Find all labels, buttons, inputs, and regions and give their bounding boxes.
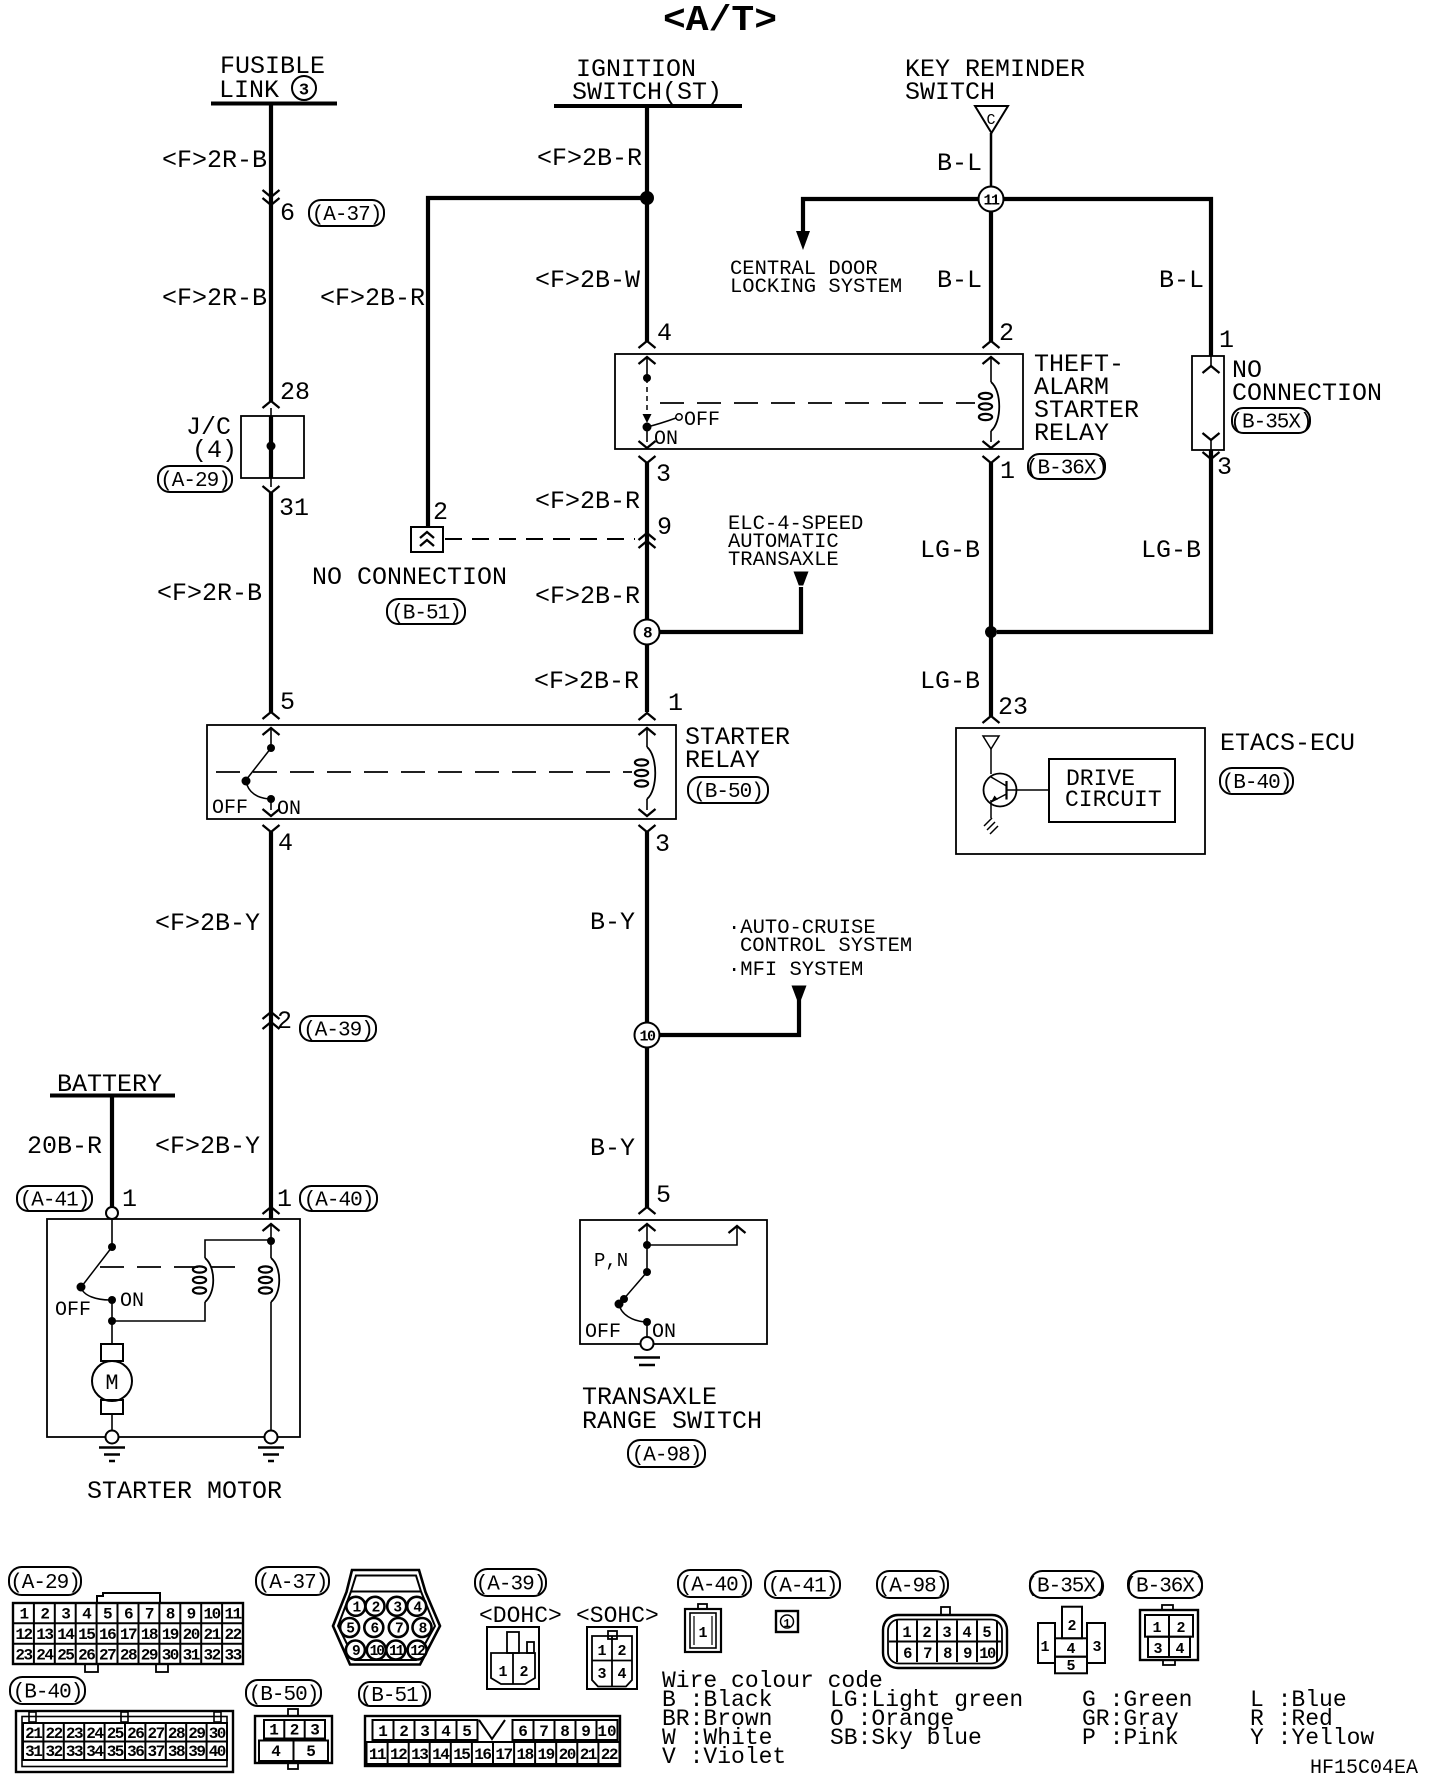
- svg-text:CONNECTION: CONNECTION: [1232, 379, 1382, 408]
- fusible link terminal bar: [211, 102, 337, 106]
- connector label B-51: [359, 1682, 430, 1706]
- svg-text:15: 15: [78, 1626, 95, 1644]
- svg-text:29: 29: [141, 1646, 158, 1664]
- connector A-39 SOHC pinout: [587, 1627, 637, 1689]
- theft-alarm starter relay box B-36X: [615, 354, 1023, 449]
- svg-text:20B-R: 20B-R: [27, 1132, 102, 1161]
- svg-text:<F>2B-Y: <F>2B-Y: [155, 909, 260, 938]
- svg-text:8: 8: [943, 1645, 952, 1663]
- svg-text:NO CONNECTION: NO CONNECTION: [312, 563, 507, 592]
- svg-text:39: 39: [188, 1743, 205, 1761]
- wire (F)2R-B to starter relay: [269, 493, 273, 712]
- dashed link to pin 9: [445, 538, 635, 540]
- svg-text:·MFI SYSTEM: ·MFI SYSTEM: [728, 959, 863, 982]
- connector label B-35X: [1030, 1571, 1102, 1598]
- ground starter motor coil: [265, 1431, 278, 1444]
- svg-text:<A/T>: <A/T>: [663, 0, 777, 41]
- svg-text:<F>2B-R: <F>2B-R: [535, 582, 640, 611]
- svg-text:33: 33: [224, 1646, 241, 1664]
- svg-text:30: 30: [162, 1646, 179, 1664]
- transaxle inner branch: [647, 1226, 737, 1245]
- svg-text:18: 18: [516, 1746, 533, 1764]
- svg-text:4: 4: [271, 1743, 281, 1761]
- transaxle range switch box: [580, 1220, 767, 1344]
- svg-text:(B-36X): (B-36X): [1026, 458, 1107, 481]
- svg-text:<F>2R-B: <F>2R-B: [162, 284, 267, 313]
- svg-text:7: 7: [145, 1606, 154, 1624]
- wire node 10 branch to MFI: [659, 999, 799, 1035]
- svg-text:(A-39): (A-39): [476, 1574, 546, 1597]
- node 10: [635, 1023, 660, 1048]
- svg-text:(B-40): (B-40): [13, 1682, 83, 1705]
- theft relay switch contact: [646, 357, 648, 377]
- svg-text:(A-41): (A-41): [768, 1576, 838, 1599]
- svg-text:RANGE SWITCH: RANGE SWITCH: [582, 1407, 762, 1436]
- svg-text:6: 6: [903, 1645, 912, 1663]
- connector B-51 pinout: [365, 1716, 620, 1766]
- no connection box B-35X: [1192, 356, 1224, 450]
- wire theft pin1 down LG-B: [989, 463, 993, 626]
- svg-text:LG-B: LG-B: [920, 667, 980, 696]
- svg-text:2: 2: [1176, 1620, 1185, 1637]
- svg-text:2: 2: [1067, 1618, 1076, 1635]
- svg-text:3: 3: [656, 460, 671, 489]
- svg-text:1: 1: [1219, 326, 1234, 355]
- svg-text:4: 4: [617, 1666, 626, 1683]
- svg-text:27: 27: [99, 1646, 116, 1664]
- ETACS-ECU box B-40: [956, 728, 1205, 854]
- svg-text:19: 19: [537, 1746, 554, 1764]
- battery terminal circle A-41 pin 1: [106, 1207, 118, 1219]
- connector B-36X pinout: [1162, 1605, 1173, 1610]
- svg-text:<DOHC>: <DOHC>: [479, 1603, 562, 1629]
- svg-text:(A-37): (A-37): [312, 204, 382, 227]
- svg-text:8: 8: [166, 1606, 175, 1624]
- svg-text:12: 12: [390, 1746, 407, 1764]
- svg-text:9: 9: [657, 513, 672, 542]
- svg-text:<F>2R-B: <F>2R-B: [162, 146, 267, 175]
- svg-text:OFF: OFF: [55, 1299, 91, 1322]
- svg-text:15: 15: [453, 1746, 470, 1764]
- connector A-37 pinout: [333, 1570, 440, 1665]
- svg-text:1: 1: [1152, 1620, 1161, 1637]
- svg-text:LOCKING SYSTEM: LOCKING SYSTEM: [730, 276, 902, 299]
- svg-text:OFF: OFF: [212, 797, 248, 820]
- svg-text:23: 23: [998, 693, 1028, 722]
- svg-text:2: 2: [40, 1606, 49, 1624]
- svg-text:<F>2B-W: <F>2B-W: [535, 266, 640, 295]
- svg-text:1: 1: [1040, 1639, 1049, 1656]
- connector A-39 pin 2 chevrons: [263, 1012, 280, 1019]
- svg-text:(A-40): (A-40): [680, 1575, 750, 1598]
- svg-text:33: 33: [66, 1743, 83, 1761]
- svg-text:6: 6: [124, 1606, 133, 1624]
- connector A-39 DOHC pinout: [487, 1627, 539, 1689]
- svg-text:<F>2B-Y: <F>2B-Y: [155, 1132, 260, 1161]
- svg-text:(B-51): (B-51): [360, 1685, 430, 1708]
- key reminder switch symbol C: [975, 106, 1008, 133]
- svg-text:SWITCH(ST): SWITCH(ST): [572, 78, 722, 107]
- svg-text:SWITCH: SWITCH: [905, 78, 995, 107]
- svg-text:24: 24: [36, 1646, 54, 1664]
- svg-text:1: 1: [698, 1625, 707, 1642]
- connector label B-40: [10, 1677, 85, 1704]
- wire (F)2B-R theft relay to node 8: [645, 463, 649, 619]
- svg-text:C: C: [986, 112, 995, 129]
- connector A-29 pinout: [13, 1603, 243, 1664]
- svg-text:22: 22: [601, 1746, 618, 1764]
- svg-text:3: 3: [310, 1722, 320, 1740]
- svg-text:9: 9: [963, 1645, 972, 1663]
- svg-text:1: 1: [122, 1185, 137, 1214]
- svg-text:31: 31: [279, 494, 309, 523]
- svg-text:B-Y: B-Y: [590, 1134, 635, 1163]
- drive circuit box: [1049, 759, 1175, 822]
- svg-text:HF15C04EA: HF15C04EA: [1310, 1757, 1418, 1780]
- svg-text:1: 1: [1000, 457, 1015, 486]
- connector A-40 pin 1 chevrons: [263, 1207, 280, 1214]
- svg-text:4: 4: [962, 1624, 971, 1642]
- svg-text:1: 1: [378, 1723, 388, 1741]
- svg-text:<F>2B-R: <F>2B-R: [320, 284, 425, 313]
- svg-text:22: 22: [224, 1626, 241, 1644]
- ground starter motor M: [106, 1431, 119, 1444]
- svg-text:(A-40): (A-40): [304, 1190, 374, 1213]
- svg-text:3: 3: [61, 1606, 70, 1624]
- svg-text:(4): (4): [192, 436, 237, 465]
- wire node 11 down B-L: [989, 211, 993, 341]
- svg-text:14: 14: [57, 1626, 75, 1644]
- svg-text:11: 11: [224, 1606, 241, 1624]
- svg-text:10: 10: [370, 1644, 385, 1660]
- svg-text:3: 3: [1217, 453, 1232, 482]
- connector label B-50: [246, 1680, 321, 1706]
- svg-text:(B-50): (B-50): [249, 1684, 319, 1707]
- svg-text:ETACS-ECU: ETACS-ECU: [1220, 729, 1355, 758]
- starter motor pull-in coil: [205, 1258, 213, 1302]
- svg-text:16: 16: [99, 1626, 116, 1644]
- svg-text:12: 12: [410, 1644, 425, 1660]
- ground transaxle switch: [641, 1337, 654, 1350]
- wire battery 20B-R: [110, 1097, 114, 1207]
- svg-text:STARTER MOTOR: STARTER MOTOR: [87, 1477, 282, 1506]
- svg-text:17: 17: [120, 1626, 137, 1644]
- svg-text:RELAY: RELAY: [685, 746, 760, 775]
- svg-text:7: 7: [539, 1723, 549, 1741]
- svg-text:5: 5: [982, 1624, 991, 1642]
- svg-text:1: 1: [277, 1185, 292, 1214]
- svg-text:26: 26: [127, 1725, 144, 1743]
- svg-text:5: 5: [306, 1743, 316, 1761]
- svg-text:8: 8: [643, 625, 652, 643]
- svg-text:20: 20: [559, 1746, 576, 1764]
- svg-text:11: 11: [389, 1644, 405, 1660]
- svg-text:ON: ON: [654, 428, 678, 451]
- svg-text:(B-36X): (B-36X): [1124, 1576, 1205, 1599]
- wire B-35X pin3 LG-B down to junction: [997, 450, 1211, 632]
- svg-text:30: 30: [209, 1725, 226, 1743]
- svg-text:18: 18: [141, 1626, 158, 1644]
- svg-text:4: 4: [441, 1723, 451, 1741]
- svg-text:(A-39): (A-39): [303, 1020, 373, 1043]
- svg-text:3: 3: [942, 1624, 951, 1642]
- svg-text:1: 1: [668, 689, 683, 718]
- wire ignition vertical (F)2B-R: [645, 106, 649, 341]
- svg-text:<F>2B-R: <F>2B-R: [535, 487, 640, 516]
- svg-text:CIRCUIT: CIRCUIT: [1065, 787, 1162, 813]
- ignition switch terminal bar: [554, 104, 742, 108]
- svg-text:5: 5: [656, 1181, 671, 1210]
- starter relay pin 3 terminals: [639, 809, 656, 816]
- starter motor hold coil: [271, 1258, 279, 1302]
- connector A-41 pinout: [776, 1611, 798, 1632]
- connector B-40 pinout: [16, 1711, 233, 1772]
- svg-text:21: 21: [580, 1746, 597, 1764]
- svg-text:38: 38: [168, 1743, 185, 1761]
- starter motor M: [111, 1321, 113, 1344]
- connector A-37 pin 6 chevrons: [263, 190, 280, 197]
- svg-text:11: 11: [369, 1746, 386, 1764]
- wire to central door locking system: [803, 199, 978, 233]
- svg-text:B-L: B-L: [937, 266, 982, 295]
- svg-text:32: 32: [45, 1743, 62, 1761]
- svg-text:10: 10: [203, 1606, 220, 1624]
- svg-text:LG-B: LG-B: [1141, 536, 1201, 565]
- svg-text:1: 1: [902, 1624, 911, 1642]
- svg-text:13: 13: [411, 1746, 428, 1764]
- wire node 8 branch to ELC transaxle: [659, 587, 801, 632]
- svg-text:6: 6: [518, 1723, 528, 1741]
- theft relay pin 1 terminals: [983, 441, 1000, 448]
- svg-text:2: 2: [433, 498, 448, 527]
- starter relay box B-50: [207, 725, 676, 819]
- ETACS input triangle: [983, 736, 999, 749]
- svg-text:9: 9: [187, 1606, 196, 1624]
- svg-text:(A-37): (A-37): [258, 1572, 328, 1595]
- wire (F)2B-Y relay to starter motor: [269, 832, 273, 1219]
- svg-text:3: 3: [1092, 1639, 1101, 1656]
- svg-text:1: 1: [783, 1617, 790, 1631]
- svg-text:35: 35: [107, 1743, 124, 1761]
- wire fusible link vertical (F)2R-B: [269, 105, 273, 401]
- starter relay pin 4 terminals: [263, 809, 280, 816]
- svg-text:2: 2: [519, 1664, 528, 1681]
- connector label B-36X: [1128, 1571, 1202, 1598]
- svg-text:10: 10: [639, 1029, 656, 1046]
- svg-text:1: 1: [498, 1664, 507, 1681]
- svg-text:27: 27: [147, 1725, 164, 1743]
- svg-text:37: 37: [147, 1743, 164, 1761]
- wire A-40 down through hold coil: [270, 1224, 272, 1258]
- svg-text:28: 28: [280, 378, 310, 407]
- svg-text:32: 32: [203, 1646, 220, 1664]
- svg-text:2: 2: [399, 1723, 409, 1741]
- svg-text:11: 11: [983, 193, 1000, 210]
- svg-text:(A-29): (A-29): [10, 1572, 80, 1595]
- svg-text:3: 3: [420, 1723, 430, 1741]
- svg-text:5: 5: [462, 1723, 472, 1741]
- svg-text:2: 2: [999, 319, 1014, 348]
- svg-text:2: 2: [617, 1643, 626, 1660]
- svg-text:22: 22: [45, 1725, 62, 1743]
- svg-text:2: 2: [922, 1624, 931, 1642]
- svg-text:(B-35X): (B-35X): [1230, 412, 1311, 435]
- svg-text:31: 31: [183, 1646, 200, 1664]
- wire node 11 to B-35X branch B-L: [1004, 199, 1211, 356]
- svg-text:6: 6: [280, 199, 295, 228]
- svg-text:B-L: B-L: [937, 149, 982, 178]
- svg-text:B-Y: B-Y: [590, 908, 635, 937]
- node LG-B junction: [985, 626, 997, 638]
- svg-text:ON: ON: [277, 798, 301, 821]
- svg-text:V :Violet: V :Violet: [662, 1744, 786, 1770]
- svg-text:36: 36: [127, 1743, 144, 1761]
- svg-text:M: M: [105, 1371, 118, 1396]
- svg-text:1: 1: [269, 1722, 279, 1740]
- ETACS transistor: [984, 774, 1017, 807]
- svg-text:(B-51): (B-51): [391, 603, 461, 626]
- svg-text:13: 13: [36, 1626, 53, 1644]
- svg-text:(A-98): (A-98): [878, 1576, 948, 1599]
- svg-text:2: 2: [290, 1722, 300, 1740]
- ground ETACS transistor: [984, 818, 998, 834]
- connector A-40 pinout: [698, 1604, 707, 1609]
- wire (F)2B-R node8 to starter relay pin 1: [645, 644, 649, 712]
- connector label A-37: [309, 200, 384, 226]
- svg-text:5: 5: [1066, 1658, 1075, 1675]
- svg-text:4: 4: [278, 829, 293, 858]
- junction block J/C (4) A-29: [263, 401, 280, 408]
- svg-text:4: 4: [1066, 1641, 1075, 1658]
- connector label A-29: [9, 1567, 81, 1595]
- svg-text:17: 17: [495, 1746, 512, 1764]
- svg-text:CONTROL SYSTEM: CONTROL SYSTEM: [740, 935, 912, 958]
- svg-text:OFF: OFF: [585, 1321, 621, 1344]
- svg-text:14: 14: [432, 1746, 450, 1764]
- connector label A-41: [765, 1571, 840, 1598]
- svg-text:20: 20: [183, 1626, 200, 1644]
- wire B-Y starter relay pin3 to node 10: [645, 832, 649, 1022]
- svg-text:34: 34: [86, 1743, 104, 1761]
- theft relay pin 3 terminals: [639, 441, 656, 448]
- svg-text:23: 23: [66, 1725, 83, 1743]
- svg-text:4: 4: [657, 319, 672, 348]
- svg-text:31: 31: [25, 1743, 42, 1761]
- node 8: [635, 620, 660, 645]
- connector label A-98: [877, 1571, 948, 1598]
- svg-text:40: 40: [209, 1743, 226, 1761]
- svg-text:(B-35X): (B-35X): [1025, 1576, 1106, 1599]
- svg-text:1: 1: [19, 1606, 28, 1624]
- battery terminal bar: [50, 1094, 175, 1098]
- svg-text:25: 25: [107, 1725, 124, 1743]
- svg-text:5: 5: [103, 1606, 112, 1624]
- svg-text:24: 24: [86, 1725, 104, 1743]
- svg-text:TRANSAXLE: TRANSAXLE: [728, 549, 839, 572]
- svg-text:ON: ON: [652, 1321, 676, 1344]
- starter motor switch: [111, 1219, 113, 1246]
- svg-text:3: 3: [1153, 1641, 1162, 1658]
- svg-text:4: 4: [1175, 1641, 1184, 1658]
- svg-text:10: 10: [979, 1645, 996, 1663]
- wire to pull-in coil: [112, 1302, 205, 1321]
- svg-text:19: 19: [162, 1626, 179, 1644]
- starter motor box: [47, 1219, 300, 1437]
- svg-text:<F>2R-B: <F>2R-B: [157, 579, 262, 608]
- svg-text:10: 10: [597, 1723, 616, 1741]
- svg-text:LINK: LINK: [219, 76, 279, 105]
- svg-text:28: 28: [120, 1646, 137, 1664]
- starter relay coil: [639, 713, 656, 720]
- svg-text:1: 1: [597, 1643, 606, 1660]
- wire B-Y node 10 to transaxle: [645, 1047, 649, 1207]
- svg-text:<SOHC>: <SOHC>: [576, 1603, 659, 1629]
- svg-text:ON: ON: [120, 1290, 144, 1313]
- starter relay pin 5 terminals: [263, 712, 280, 719]
- svg-text:29: 29: [188, 1725, 205, 1743]
- svg-text:(A-41): (A-41): [20, 1190, 90, 1213]
- connector A-98 pinout: [941, 1607, 950, 1615]
- svg-text:7: 7: [923, 1645, 932, 1663]
- svg-text:28: 28: [168, 1725, 185, 1743]
- svg-text:2: 2: [277, 1007, 292, 1036]
- connector B-50 pinout: [288, 1709, 298, 1716]
- svg-text:OFF: OFF: [684, 409, 720, 432]
- connector pin 9 chevrons: [639, 533, 656, 540]
- connector label A-39: [475, 1569, 546, 1596]
- svg-text:P,N: P,N: [594, 1250, 628, 1272]
- svg-text:21: 21: [203, 1626, 220, 1644]
- svg-text:<F>2B-R: <F>2B-R: [537, 144, 642, 173]
- wire branch to A-37 / no connection B-51: [428, 198, 647, 527]
- theft relay coil: [983, 341, 1000, 348]
- svg-text:21: 21: [25, 1725, 42, 1743]
- svg-text:(A-29): (A-29): [160, 470, 230, 493]
- svg-text:RELAY: RELAY: [1034, 419, 1109, 448]
- node junction ignition branch: [640, 191, 654, 205]
- connector B-35X pinout: [1062, 1607, 1082, 1639]
- svg-text:(B-40): (B-40): [1222, 772, 1292, 795]
- theft relay pin 4 terminals: [639, 341, 656, 348]
- svg-text:9: 9: [581, 1723, 591, 1741]
- svg-text:3: 3: [299, 82, 309, 101]
- svg-text:P :Pink: P :Pink: [1082, 1725, 1179, 1751]
- node 11: [979, 187, 1004, 212]
- svg-text:25: 25: [57, 1646, 74, 1664]
- svg-text:3: 3: [655, 830, 670, 859]
- svg-text:5: 5: [280, 688, 295, 717]
- connector label A-37: [256, 1567, 329, 1595]
- svg-text:B-L: B-L: [1159, 266, 1204, 295]
- starter relay switch: [270, 728, 272, 747]
- svg-text:23: 23: [15, 1646, 32, 1664]
- svg-text:<F>2B-R: <F>2B-R: [534, 667, 639, 696]
- svg-text:SB:Sky blue: SB:Sky blue: [830, 1725, 982, 1751]
- svg-text:12: 12: [15, 1626, 32, 1644]
- svg-text:8: 8: [560, 1723, 570, 1741]
- svg-text:LG-B: LG-B: [920, 536, 980, 565]
- svg-text:26: 26: [78, 1646, 95, 1664]
- connector label A-40: [678, 1570, 751, 1597]
- svg-text:3: 3: [597, 1666, 606, 1683]
- svg-text:(B-50): (B-50): [693, 781, 763, 804]
- svg-text:(A-98): (A-98): [632, 1445, 702, 1468]
- svg-text:Y :Yellow: Y :Yellow: [1250, 1725, 1374, 1751]
- svg-text:16: 16: [474, 1746, 491, 1764]
